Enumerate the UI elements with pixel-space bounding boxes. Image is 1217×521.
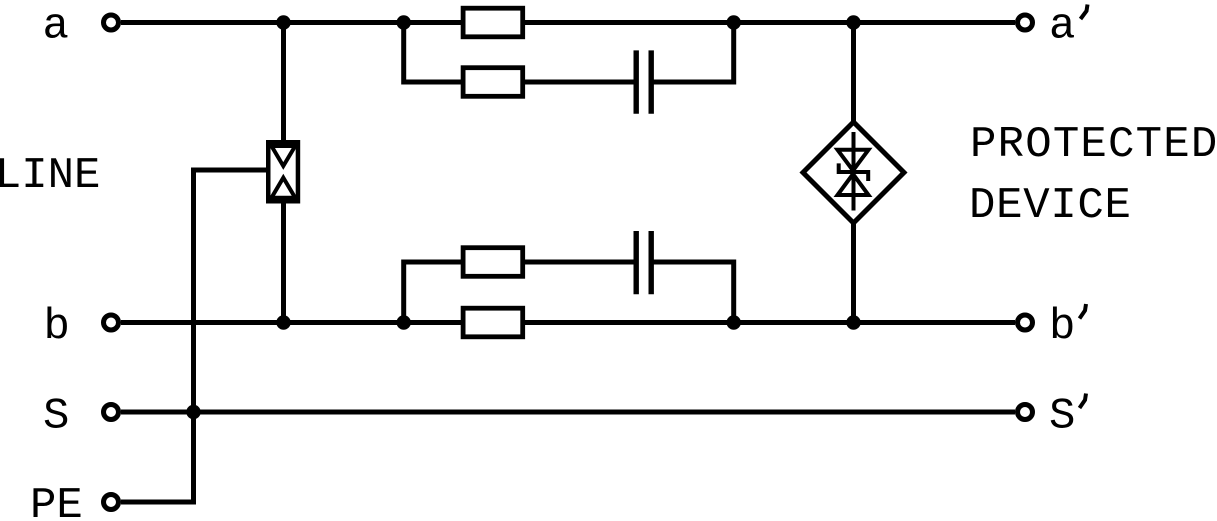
svg-text:LINE: LINE	[0, 151, 100, 201]
svg-text:S: S	[43, 392, 69, 442]
junction a-TVS	[846, 15, 860, 29]
junction a-RC left	[397, 15, 411, 29]
svg-text:DEVICE: DEVICE	[969, 181, 1132, 231]
svg-text:a: a	[1049, 2, 1075, 52]
svg-text:S: S	[1049, 392, 1075, 442]
wire GDT top lead	[281, 23, 286, 143]
terminal b	[104, 315, 119, 330]
junction b-RC left	[397, 315, 411, 329]
label S-prime tick	[1080, 394, 1087, 409]
svg-text:b: b	[44, 302, 70, 352]
terminal a	[104, 15, 119, 30]
wire PE line	[121, 500, 196, 505]
resistor R3 bottom parallel	[463, 248, 523, 277]
label b-prime tick	[1080, 304, 1087, 319]
svg-text:b: b	[1049, 302, 1075, 352]
junction a-RC right	[727, 15, 741, 29]
svg-text:a: a	[43, 2, 69, 52]
wire bottom RC branch left	[404, 262, 636, 323]
svg-text:PE: PE	[30, 481, 83, 521]
capacitor C2 bottom	[636, 231, 651, 294]
wire top RC branch left	[404, 23, 636, 83]
TVS diode diamond	[803, 122, 904, 223]
wire b line	[121, 320, 1015, 325]
junction b-RC right	[727, 315, 741, 329]
terminal b-prime	[1018, 315, 1033, 330]
wire GDT bottom lead	[281, 202, 286, 323]
resistor R2 top parallel	[463, 68, 523, 97]
label a-prime tick	[1081, 5, 1088, 20]
terminal PE	[104, 495, 119, 510]
resistor R1 top series	[463, 8, 523, 37]
junction b-GDT	[276, 315, 290, 329]
wire PE riser	[194, 170, 267, 502]
wire TVS vertical	[851, 23, 856, 323]
junction b-TVS	[846, 315, 860, 329]
terminal a-prime	[1018, 15, 1033, 30]
terminal S	[104, 405, 119, 420]
junction S-PE riser	[186, 405, 200, 419]
resistor R4 bottom series	[463, 308, 523, 337]
junction a-GDT	[276, 15, 290, 29]
gas discharge tube GDT	[268, 142, 298, 201]
wire S line	[121, 410, 1015, 415]
wire top RC branch right	[651, 23, 734, 83]
terminal S-prime	[1018, 405, 1033, 420]
wire bottom RC branch right	[651, 262, 734, 323]
svg-text:PROTECTED: PROTECTED	[970, 120, 1217, 170]
wire a line	[121, 20, 1015, 25]
TVS diode inner symbol	[838, 132, 869, 211]
capacitor C1 top	[636, 50, 651, 113]
